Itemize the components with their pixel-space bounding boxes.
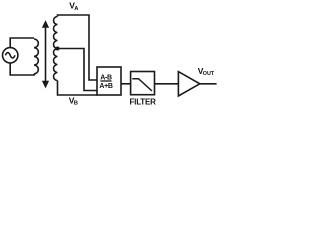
svg-text:OUT: OUT xyxy=(203,71,215,77)
svg-text:B: B xyxy=(74,101,78,107)
svg-text:FILTER: FILTER xyxy=(129,97,156,106)
svg-text:A+B: A+B xyxy=(99,83,113,90)
